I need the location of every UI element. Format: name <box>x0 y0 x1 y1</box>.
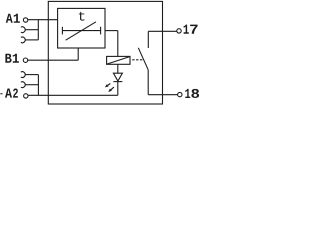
label 17 <box>184 25 198 34</box>
label 18 <box>185 89 199 98</box>
wire A1 to timer box <box>28 19 58 21</box>
socket contact 4 <box>21 82 25 88</box>
terminal B1 <box>23 58 27 62</box>
wire socket 3 tail <box>25 74 38 76</box>
outer box (relay housing) <box>48 1 162 104</box>
terminal A2 <box>24 94 28 98</box>
socket contact 2 <box>21 37 25 43</box>
wire socket 4 tail <box>25 84 38 86</box>
wire to terminal 17 <box>148 30 177 32</box>
wire LED to A2 bus <box>117 82 119 96</box>
label -A2 <box>0 89 18 98</box>
timer symbol diagonal <box>66 22 96 40</box>
wire A2 horizontal <box>28 94 118 96</box>
wire coil to LED <box>117 64 119 73</box>
LED light arrow 1 <box>105 84 111 88</box>
wire to terminal 18 <box>148 94 177 96</box>
wire bus sockets to A2 <box>37 75 39 96</box>
contact blade <box>138 48 148 70</box>
relay coil K1 <box>107 56 130 64</box>
timer symbol left tick <box>61 27 63 35</box>
contact moving terminal <box>147 70 149 95</box>
wire socket 1 tail <box>25 29 38 31</box>
wire timer output right <box>105 30 118 32</box>
timer symbol right tick <box>100 27 102 35</box>
LED light arrow 2 <box>108 87 114 92</box>
terminal A1 <box>23 18 27 22</box>
mechanical link dashed <box>132 59 143 61</box>
socket contact 3 <box>21 72 25 78</box>
socket contact 1 <box>21 27 25 33</box>
label A1 <box>6 14 20 23</box>
label B1 <box>5 54 19 63</box>
wire socket 2 tail <box>25 39 38 41</box>
label t (timer) <box>79 12 85 21</box>
wire timer output down <box>117 31 119 57</box>
contact fixed terminal <box>147 31 149 48</box>
LED D1 triangle <box>113 73 122 81</box>
timer symbol horizontal line <box>62 30 100 32</box>
coil diagonal <box>107 57 130 65</box>
wire bus A1 sockets <box>37 20 39 40</box>
terminal 18 <box>178 92 182 96</box>
wire B1 horizontal <box>28 59 78 61</box>
terminal 17 <box>177 29 181 33</box>
wire B1 up to timer box <box>77 48 79 60</box>
timer function box U1 <box>58 8 105 48</box>
LED cathode bar <box>113 81 122 83</box>
